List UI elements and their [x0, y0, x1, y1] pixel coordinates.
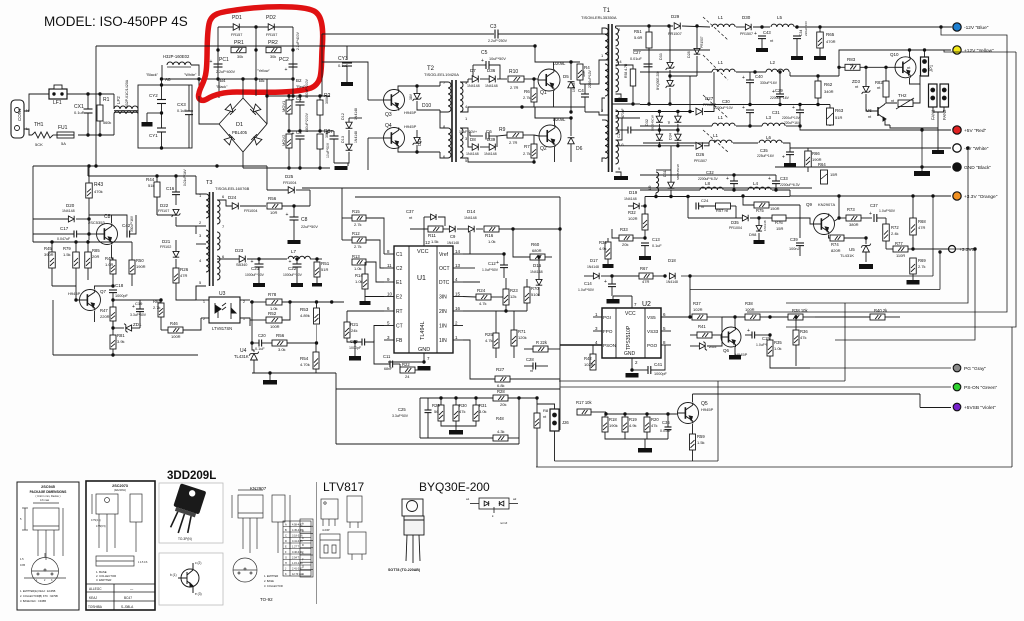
svg-text:L1: L1: [718, 60, 724, 65]
resistor PR1: [231, 47, 246, 53]
svg-text:R7: R7: [524, 144, 530, 149]
svg-text:1N4148: 1N4148: [464, 216, 477, 220]
svg-text:KEAJ: KEAJ: [89, 596, 97, 600]
svg-text:D27: D27: [705, 96, 714, 101]
svg-text:D22: D22: [160, 203, 169, 208]
svg-text:GND: GND: [418, 347, 430, 353]
wire HV rail to C3: [322, 33, 494, 35]
svg-text:R72: R72: [891, 225, 899, 230]
svg-text:R67: R67: [640, 266, 648, 271]
thermistor TH1: [32, 132, 53, 138]
svg-text:1000pF: 1000pF: [115, 294, 129, 298]
svg-text:C37: C37: [406, 209, 414, 214]
resistor R72: [883, 224, 890, 241]
svg-text:1N4148: 1N4148: [763, 220, 767, 231]
wire main row y218: [688, 217, 742, 219]
svg-text:+: +: [782, 155, 785, 161]
wire B2 to HV rail: [292, 79, 294, 96]
svg-text:R21: R21: [350, 322, 359, 327]
svg-text:R52: R52: [268, 311, 277, 316]
svg-text:C18: C18: [115, 283, 124, 288]
svg-text:100R: 100R: [745, 307, 755, 312]
svg-text:0.01uF*1kV: 0.01uF*1kV: [183, 168, 187, 186]
svg-text:1.0k: 1.0k: [774, 346, 782, 351]
resistor R53: [314, 308, 320, 324]
resistor R25: [493, 333, 499, 348]
svg-text:CY3: CY3: [338, 56, 348, 62]
wire drive feedback column: [341, 188, 343, 240]
resistor R65: [817, 32, 824, 48]
svg-text:LTV817: LTV817: [323, 480, 364, 494]
ground D98: [754, 240, 765, 244]
svg-text:3. COLLECTOR: 3. COLLECTOR: [264, 584, 283, 588]
inductor L1c: [712, 123, 735, 126]
3DD209L transistor symbol: [178, 563, 199, 593]
svg-text:51R: 51R: [321, 267, 328, 272]
svg-text:CT: CT: [396, 324, 403, 330]
svg-text:R48: R48: [496, 416, 504, 421]
svg-text:Q10: Q10: [890, 52, 899, 57]
svg-text:R65: R65: [826, 32, 835, 37]
svg-text:"Black": "Black": [216, 85, 228, 89]
svg-text:R13: R13: [352, 254, 360, 259]
svg-text:+: +: [742, 105, 745, 111]
diode D33: [666, 62, 675, 70]
svg-text:1.0uF*50V: 1.0uF*50V: [482, 268, 499, 272]
capacitor C1: [296, 102, 305, 105]
svg-text:R66: R66: [812, 151, 820, 156]
svg-text:13: 13: [455, 263, 461, 268]
svg-text:FPO: FPO: [603, 329, 613, 334]
wire 5VSB violet: [920, 407, 951, 409]
resistor R62: [815, 81, 821, 98]
wire +12V yellow: [790, 75, 839, 77]
svg-text:4.7k: 4.7k: [479, 301, 487, 306]
svg-text:R37: R37: [693, 301, 701, 306]
svg-text:0.1uF: 0.1uF: [74, 110, 85, 115]
wire loop +5V down: [921, 130, 923, 167]
dual diode D32b: [656, 134, 663, 140]
svg-text:C17: C17: [60, 226, 69, 231]
svg-text:D10: D10: [422, 103, 431, 109]
fuse FU1: [57, 132, 74, 138]
resistor R43: [86, 183, 93, 198]
svg-text:R9: R9: [499, 127, 506, 133]
svg-text:PC2: PC2: [279, 57, 289, 63]
wire aux rail y166: [33, 165, 267, 167]
svg-text:FR1004: FR1004: [244, 209, 258, 213]
svg-text:SB2545CW: SB2545CW: [651, 115, 655, 131]
transistor Q1: [538, 69, 560, 91]
svg-text:PACKAGE DIMENSIONS: PACKAGE DIMENSIONS: [30, 490, 67, 494]
svg-text:"White": "White": [184, 73, 197, 77]
svg-text:C40: C40: [755, 74, 763, 79]
svg-text:Vref: Vref: [439, 252, 449, 258]
wire GND rail: [775, 166, 951, 168]
svg-text:R74: R74: [831, 242, 839, 247]
svg-text:1: 1: [203, 300, 205, 304]
svg-text:+: +: [772, 89, 775, 95]
svg-text:LF2: LF2: [116, 96, 121, 104]
svg-text:R46: R46: [170, 321, 178, 326]
wire loop +12V: [786, 52, 1016, 327]
zener D11: [413, 137, 422, 145]
svg-text:R30: R30: [459, 403, 467, 408]
svg-text:+3.3V "Orange": +3.3V "Orange": [964, 194, 998, 200]
svg-text:R 22k: R 22k: [536, 340, 548, 345]
wire mid rail y104: [640, 104, 830, 106]
wire Q9 collector node: [838, 196, 840, 218]
svg-text:C13: C13: [652, 237, 660, 242]
svg-text:R18: R18: [609, 417, 617, 422]
svg-text:R40 2k: R40 2k: [874, 308, 888, 313]
svg-text:Q6: Q6: [723, 348, 730, 353]
svg-text:Q2: Q2: [540, 146, 547, 152]
svg-text:GND: GND: [624, 351, 636, 357]
wire CON1 to LF1 top rail: [24, 94, 49, 111]
svg-text:L5: L5: [777, 15, 783, 20]
resistor R47: [110, 307, 116, 321]
svg-text:R8: R8: [543, 408, 549, 413]
svg-text:D36: D36: [487, 68, 496, 73]
wire D21 branch: [176, 225, 196, 227]
resistor R26: [173, 268, 179, 283]
wire Q7: [76, 286, 79, 300]
svg-text:CX3: CX3: [177, 102, 186, 107]
IC U2 TPS3510P: [602, 308, 661, 358]
wire Q1 collector: [535, 46, 554, 69]
2SC2073 side view: [96, 556, 134, 566]
svg-text:C27: C27: [633, 50, 641, 55]
svg-text:R14: R14: [355, 273, 363, 278]
svg-text:R20: R20: [651, 417, 659, 422]
svg-text:4.7k: 4.7k: [485, 338, 493, 343]
svg-text:H945P: H945P: [404, 124, 417, 129]
wire D32 bottom rail: [616, 145, 695, 147]
svg-text:5A: 5A: [61, 141, 66, 146]
wire U3 pins: [196, 299, 209, 301]
svg-text:U3: U3: [219, 291, 226, 297]
resistor PR2: [266, 47, 281, 53]
svg-text:"Yellow": "Yellow": [257, 69, 271, 73]
svg-text:R42: R42: [584, 356, 592, 361]
svg-text:380R: 380R: [849, 222, 859, 227]
svg-text:R33: R33: [620, 227, 628, 232]
svg-text:2.7R: 2.7R: [510, 85, 519, 90]
svg-text:2. BASE: 2. BASE: [264, 579, 274, 583]
svg-text:150R: 150R: [770, 206, 780, 211]
transistor Q5 H945P: [678, 403, 699, 424]
svg-text:17.5(0.5): 17.5(0.5): [96, 525, 106, 528]
transistor Q4: [384, 128, 405, 149]
svg-text:220R: 220R: [100, 314, 110, 319]
zener D10: [413, 93, 422, 101]
varistor MOV2: [286, 134, 292, 148]
svg-text:10: 10: [387, 292, 393, 297]
svg-text:1.5k: 1.5k: [431, 239, 439, 244]
svg-text:C29: C29: [775, 88, 783, 93]
3DD209L symbol box: [159, 553, 223, 605]
svg-text:D17: D17: [590, 258, 598, 263]
dual diode D32: [656, 116, 663, 122]
svg-text:CY1: CY1: [149, 133, 158, 138]
svg-text:14: 14: [455, 249, 461, 254]
inductor L1a: [712, 24, 735, 27]
svg-text:R17 10k: R17 10k: [576, 400, 593, 405]
svg-text:R73: R73: [847, 207, 855, 212]
ground U4: [263, 380, 277, 385]
svg-text:A: A: [302, 522, 304, 526]
svg-text:R47: R47: [100, 308, 108, 313]
diode D98: [756, 226, 762, 231]
svg-text:MODEL: ISO-450PP 4S: MODEL: ISO-450PP 4S: [44, 14, 188, 29]
resistor R23: [503, 289, 509, 305]
svg-text:R34: R34: [599, 240, 607, 245]
diode D7: [472, 76, 478, 83]
resistor R31: [473, 405, 479, 421]
resistor R16: [484, 226, 499, 232]
resistor R76: [772, 215, 786, 221]
wire PR to PC: [217, 50, 219, 79]
diode D24: [232, 203, 238, 210]
svg-text:nt: nt: [891, 99, 894, 103]
capacitor PC2: [289, 64, 298, 67]
svg-text:C43: C43: [763, 30, 771, 35]
zener ZD2: [699, 342, 707, 351]
svg-text:4.89k: 4.89k: [300, 313, 310, 318]
inductor L7: [288, 256, 310, 259]
capacitor C7: [330, 136, 339, 139]
svg-text:+: +: [132, 304, 135, 310]
terminal PS-ON Green: [953, 383, 961, 391]
terminal -5V White: [953, 144, 961, 152]
svg-text:20k: 20k: [622, 242, 628, 247]
svg-text:U2: U2: [642, 301, 651, 308]
svg-text:C4: C4: [578, 88, 584, 93]
svg-text:D8: D8: [470, 137, 476, 142]
capacitor CX1: [84, 109, 93, 113]
wire D32 mid rail: [659, 129, 678, 131]
CY filter box: [138, 85, 192, 148]
svg-text:R56: R56: [276, 333, 285, 338]
svg-text:3. BASE KEC : C945B: 3. BASE KEC : C945B: [20, 599, 46, 603]
svg-text:D25: D25: [285, 174, 294, 179]
svg-text:PS-ON "Green": PS-ON "Green": [964, 385, 998, 391]
svg-text:+: +: [742, 75, 745, 81]
wire Q5 collector to 5VSB: [693, 393, 921, 395]
resistor R46: [168, 327, 183, 333]
wire aux 12V: [309, 190, 311, 206]
capacitor C2: [296, 136, 305, 139]
svg-text:+: +: [286, 212, 289, 218]
svg-text:PGO: PGO: [647, 343, 658, 348]
svg-text:R77: R77: [895, 241, 903, 246]
svg-text:D26: D26: [696, 152, 705, 157]
svg-text:24: 24: [405, 374, 410, 379]
varistor MOV1: [286, 100, 292, 114]
LTV817 drawings: [320, 496, 366, 560]
wire loop -5V: [786, 148, 968, 303]
svg-text:R70: R70: [531, 286, 539, 291]
diode D23: [239, 256, 245, 263]
svg-text:10uF*50V: 10uF*50V: [326, 142, 330, 158]
resistor R13: [352, 259, 366, 265]
svg-text:VCC: VCC: [625, 311, 636, 317]
svg-text:3IN: 3IN: [439, 295, 447, 301]
capacitor C33: [772, 181, 780, 184]
svg-text:R6: R6: [524, 89, 530, 94]
wire coil down: [161, 65, 163, 79]
ground CY3: [346, 66, 348, 82]
svg-text:C16: C16: [166, 186, 175, 191]
resistor R9: [507, 132, 523, 138]
wires R45 R79 R85: [51, 242, 53, 252]
svg-text:2.7k: 2.7k: [354, 244, 362, 249]
svg-text:C: C: [302, 536, 304, 540]
svg-text:C41: C41: [654, 362, 663, 367]
svg-text:D39: D39: [487, 137, 496, 142]
LTV817 left table: [300, 519, 313, 577]
capacitor C41: [648, 366, 651, 374]
wire PD to PR: [217, 27, 219, 50]
svg-text:102R: 102R: [628, 216, 638, 221]
svg-text:+: +: [496, 260, 499, 266]
svg-text:R10: R10: [509, 69, 518, 75]
svg-text:L6: L6: [766, 135, 772, 140]
diode D5: [568, 82, 575, 88]
svg-text:100nJ: 100nJ: [789, 247, 799, 251]
separator line: [316, 482, 318, 604]
svg-text:56: 56: [434, 409, 439, 414]
resistor R74: [830, 235, 844, 241]
svg-text:PGI: PGI: [603, 315, 611, 320]
svg-text:3.3uF*50V: 3.3uF*50V: [130, 313, 147, 317]
inductor L9: [670, 146, 672, 170]
resistor R52: [266, 317, 282, 323]
svg-text:2.7R: 2.7R: [509, 140, 518, 145]
svg-text:4-DIP: 4-DIP: [322, 528, 330, 532]
resistor R20: [644, 417, 650, 432]
IC U1 TL494L: [394, 246, 453, 353]
wire D12 D13: [348, 118, 350, 122]
svg-text:340R: 340R: [824, 89, 834, 94]
svg-text:FR102: FR102: [160, 245, 171, 249]
svg-text:PBL405: PBL405: [232, 130, 248, 135]
svg-text:B2: B2: [296, 78, 302, 83]
svg-text:R78: R78: [268, 292, 277, 297]
diode PD2: [268, 24, 274, 31]
connector JP1: [921, 57, 929, 76]
svg-text:TISO8-EEL16076B: TISO8-EEL16076B: [215, 186, 250, 191]
resistor R2: [317, 100, 323, 115]
bridge rectifier D1 PBL405: [219, 98, 267, 152]
svg-text:D34: D34: [669, 133, 673, 140]
wire bank top rail: [420, 397, 537, 399]
svg-text:C34: C34: [799, 30, 803, 36]
svg-text:+: +: [754, 31, 757, 37]
svg-text:2.54 T: 2.54 T: [292, 557, 300, 560]
svg-text:225uF*16V: 225uF*16V: [757, 154, 775, 158]
2SC2073 package front: [92, 494, 142, 552]
diode D43: [431, 214, 436, 220]
inductor L1d: [709, 140, 732, 143]
svg-text:R43: R43: [94, 182, 103, 188]
svg-text:R63: R63: [835, 108, 844, 113]
svg-text:+: +: [285, 67, 288, 73]
resistor R81: [110, 335, 116, 349]
capacitor CY2: [157, 100, 166, 104]
wire base rail: [605, 412, 607, 414]
svg-text:C1: C1: [296, 96, 302, 101]
svg-text:190k: 190k: [609, 423, 618, 428]
svg-text:1 4.5 0.6: 1 4.5 0.6: [138, 561, 148, 564]
svg-text:H: H: [285, 562, 287, 565]
svg-text:2200uF*10V: 2200uF*10V: [588, 69, 592, 88]
wires D8 D39 R9: [468, 132, 472, 147]
diode D14: [468, 226, 474, 232]
wire D25: [267, 189, 288, 191]
wire PSON green: [560, 386, 951, 388]
svg-text:TL431K: TL431K: [840, 253, 854, 258]
svg-text:FB: FB: [396, 338, 403, 344]
svg-text:1N4148: 1N4148: [485, 84, 498, 88]
svg-text:+3.3VS: +3.3VS: [959, 247, 975, 253]
red highlight marker box: [199, 7, 323, 101]
T1 secondary leads: [615, 25, 618, 27]
wire 2IN: [463, 310, 527, 312]
resistor R22: [400, 367, 415, 373]
resistor R35: [767, 340, 773, 356]
svg-text:47R: 47R: [180, 273, 187, 278]
svg-text:D21: D21: [162, 239, 171, 244]
svg-text:H945P: H945P: [68, 291, 81, 296]
common-mode choke LF2: [114, 106, 138, 109]
inductor L4: [748, 187, 771, 190]
transistor Q10: [895, 57, 916, 78]
svg-text:(9A23/9c): (9A23/9c): [114, 488, 126, 492]
svg-text:LF1: LF1: [53, 100, 62, 106]
svg-text:L7: L7: [291, 249, 297, 254]
svg-text:D28: D28: [687, 51, 691, 58]
resistor R39: [788, 314, 803, 320]
svg-text:R85: R85: [92, 248, 100, 253]
svg-text:1.5k: 1.5k: [697, 440, 705, 445]
terminal GND Black: [953, 163, 961, 171]
svg-text:PSON: PSON: [603, 343, 616, 348]
svg-text:R69: R69: [918, 258, 926, 263]
svg-text:2.7k: 2.7k: [523, 151, 531, 156]
svg-text:2200uF*6.3V: 2200uF*6.3V: [780, 183, 801, 187]
svg-text:BYQ30E-200: BYQ30E-200: [419, 480, 490, 494]
svg-text:C3: C3: [490, 24, 497, 30]
2SC945 TO-92 front view: [22, 503, 63, 560]
resistor R10: [508, 76, 524, 82]
svg-text:D15: D15: [533, 263, 542, 268]
svg-text:U5: U5: [849, 247, 855, 252]
svg-text:+5VSB "Violet": +5VSB "Violet": [964, 405, 996, 411]
wire loop -12V: [747, 27, 1007, 312]
svg-text:E2: E2: [396, 295, 402, 301]
svg-text:4.3k: 4.3k: [497, 429, 505, 434]
svg-text:Q1: Q1: [540, 90, 547, 96]
wire HV+ rail: [266, 96, 268, 124]
svg-text:D19: D19: [629, 190, 638, 195]
svg-text:FR157: FR157: [231, 33, 242, 37]
svg-text:20k: 20k: [500, 402, 506, 407]
resistor R70: [524, 287, 530, 303]
svg-text:51k: 51k: [148, 183, 154, 188]
wire U4 bottom rail: [252, 372, 316, 374]
